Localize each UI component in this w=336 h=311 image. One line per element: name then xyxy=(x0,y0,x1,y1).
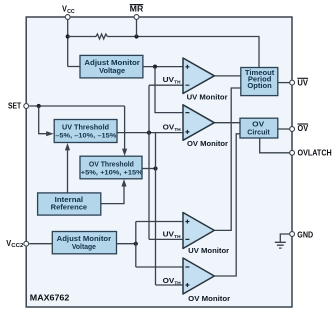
wire internal reference to UV threshold xyxy=(67,150,69,193)
svg-text:UV Threshold: UV Threshold xyxy=(62,124,109,131)
outer block boundary MAX6762 xyxy=(26,17,292,307)
pin VCC2 xyxy=(6,239,28,249)
svg-text:OV Monitor: OV Monitor xyxy=(187,139,228,148)
svg-text:UV: UV xyxy=(163,230,175,239)
svg-text:OV: OV xyxy=(163,276,175,285)
svg-text:Circuit: Circuit xyxy=(247,130,270,137)
wire UV_TH vertical xyxy=(148,85,150,239)
svg-text:CC: CC xyxy=(67,9,75,15)
wire OV circuit output to OV pin xyxy=(278,128,290,130)
wire MR vertical xyxy=(136,17,138,37)
node junction monitored voltage A xyxy=(153,65,157,69)
wire OV1 output to OV circuit xyxy=(214,122,240,124)
svg-text:SET: SET xyxy=(8,101,21,110)
ground symbol xyxy=(275,242,286,248)
svg-text:TH: TH xyxy=(174,280,181,285)
box OV threshold xyxy=(80,156,143,179)
svg-text:OVLATCH: OVLATCH xyxy=(298,148,332,157)
wire UV_TH to UV2 - input xyxy=(149,238,183,240)
op-amp UV monitor 1 xyxy=(183,58,228,101)
svg-text:OV: OV xyxy=(298,124,309,133)
svg-text:Reference: Reference xyxy=(51,205,88,212)
svg-text:CC2: CC2 xyxy=(11,243,23,249)
pin MR (active low) xyxy=(130,5,144,20)
svg-text:TH: TH xyxy=(174,127,181,132)
node junction monitored voltage B xyxy=(134,242,138,246)
box adjust monitor voltage 1 xyxy=(80,55,143,78)
svg-text:OV: OV xyxy=(163,123,175,132)
svg-text:Voltage: Voltage xyxy=(72,244,96,251)
node UV_TH label 2 xyxy=(163,230,182,239)
wire resistor to MR junction and down to timeout box xyxy=(107,37,259,68)
wire OV2 output to OV circuit xyxy=(214,134,240,276)
node junction MR xyxy=(134,34,138,38)
pin GND xyxy=(290,231,314,240)
arrow into OV threshold top xyxy=(122,149,127,156)
arrow into UV threshold left xyxy=(46,131,53,136)
resistor R1 xyxy=(96,34,107,39)
node junction VCC/resistor xyxy=(66,34,70,38)
arrow into UV threshold bottom xyxy=(65,143,70,150)
arrow into OV threshold bottom xyxy=(121,179,126,186)
svg-text:GND: GND xyxy=(297,231,313,240)
wire GND xyxy=(280,234,289,242)
pin UV (active low) xyxy=(290,78,309,87)
op-amp OV monitor 2 xyxy=(183,258,230,303)
box timeout period option xyxy=(241,68,278,96)
svg-text:Option: Option xyxy=(247,83,272,90)
node junction SET xyxy=(37,104,41,108)
box UV threshold xyxy=(54,120,117,143)
svg-text:+5%, +10%, +15%: +5%, +10%, +15% xyxy=(81,169,143,176)
wire OV threshold output xyxy=(142,168,156,170)
node OV_TH label 2 xyxy=(163,276,182,285)
svg-text:–5%, –10%, –15%: –5%, –10%, –15% xyxy=(55,133,116,140)
wire monitored B vertical xyxy=(135,222,137,268)
wire internal reference to OV threshold xyxy=(101,186,125,204)
svg-text:Internal: Internal xyxy=(55,197,84,204)
svg-text:Adjust Monitor: Adjust Monitor xyxy=(84,60,140,67)
svg-text:Adjust Monitor: Adjust Monitor xyxy=(57,236,112,243)
wire monitored B to UV2 + input xyxy=(136,221,183,223)
wire adjust1 output to UV1 + input xyxy=(143,66,183,68)
box adjust monitor voltage 2 xyxy=(52,232,116,254)
op-amp UV monitor 2 xyxy=(183,213,229,255)
svg-text:OV Threshold: OV Threshold xyxy=(89,161,134,168)
box OV circuit xyxy=(240,118,278,138)
pin OVLATCH xyxy=(290,148,332,157)
node OV_TH label 1 xyxy=(163,123,182,132)
svg-text:OV: OV xyxy=(252,121,264,128)
svg-text:UV: UV xyxy=(163,75,175,84)
box internal reference xyxy=(38,193,101,215)
wire UV threshold output to OV1 + input (horizontal) xyxy=(117,132,184,134)
wire UV2 output to timeout box xyxy=(214,88,241,230)
node junction UV_TH xyxy=(147,131,151,135)
wire VCC vertical xyxy=(68,17,80,67)
svg-text:MR: MR xyxy=(130,5,144,14)
wire SET to UV threshold box xyxy=(39,106,48,134)
pin OV (active low) xyxy=(290,124,309,133)
svg-text:UV: UV xyxy=(297,78,308,87)
svg-text:MAX6762: MAX6762 xyxy=(30,293,70,303)
wire SET horizontal xyxy=(29,105,124,107)
wire OV circuit to OVLATCH pin xyxy=(260,138,290,153)
svg-text:OV Monitor: OV Monitor xyxy=(188,294,230,303)
wire UV_TH to UV1 - input xyxy=(149,84,183,86)
pin SET xyxy=(8,101,29,110)
wire SET to OV threshold box xyxy=(124,106,126,150)
svg-text:TH: TH xyxy=(174,234,181,239)
wire OV_TH to OV2 + input xyxy=(156,284,184,286)
wire OV_TH vertical xyxy=(155,133,157,285)
op-amp OV monitor 1 xyxy=(183,105,228,148)
node UV_TH label 1 xyxy=(163,75,182,84)
wire UV1 output to timeout box xyxy=(214,75,241,77)
wire adjust2 output xyxy=(117,243,136,245)
wire monitored B to OV2 - input xyxy=(136,266,183,268)
wire monitored voltage A to OV1 - input xyxy=(155,67,183,113)
node junction OV_TH xyxy=(153,166,157,170)
svg-text:UV Monitor: UV Monitor xyxy=(188,246,229,255)
wire VCC2 to adjust2 xyxy=(29,243,52,245)
wire resistor net from VCC junction xyxy=(68,36,96,38)
pin VCC xyxy=(62,4,75,19)
svg-text:UV Monitor: UV Monitor xyxy=(187,92,228,101)
svg-text:Voltage: Voltage xyxy=(99,68,125,75)
wire timeout output to UV pin xyxy=(278,82,290,84)
svg-text:TH: TH xyxy=(174,79,181,84)
